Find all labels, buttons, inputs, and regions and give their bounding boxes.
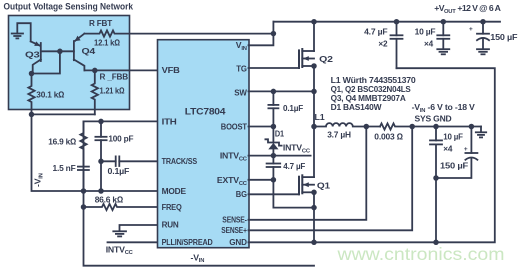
wire TG	[249, 67, 300, 69]
wire SW	[249, 90, 315, 92]
svg-text:×4: ×4	[424, 38, 433, 48]
transistor Q2 (NMOS)	[299, 49, 314, 68]
node SENSE+ tap	[409, 124, 415, 130]
ground (output 150uF)	[477, 49, 489, 54]
transistor Q3	[31, 41, 41, 73]
node Q2 drain	[311, 19, 317, 25]
svg-text:+: +	[464, 146, 468, 153]
svg-text:PLLIN/SPREAD: PLLIN/SPREAD	[162, 237, 213, 247]
svg-text:100 pF: 100 pF	[108, 133, 133, 143]
wire +VOUT top rail	[273, 21, 500, 23]
svg-text:BOOST: BOOST	[221, 122, 248, 132]
wire RUN	[120, 225, 158, 231]
svg-text:D1 BAS140W: D1 BAS140W	[331, 102, 383, 112]
ground (output 10uF)	[437, 49, 449, 54]
svg-text:www.cntronics.com: www.cntronics.com	[336, 244, 504, 264]
capacitor 0.1uF boost	[268, 91, 278, 126]
ground (inside sensing box)	[12, 23, 31, 41]
node comp rail right	[98, 188, 104, 194]
node 0.1uF tee	[98, 159, 104, 165]
sensing network region box	[9, 16, 130, 110]
wire INTVCC	[249, 155, 311, 157]
node GND input caps	[433, 240, 439, 246]
svg-text:86.6 kΩ: 86.6 kΩ	[95, 195, 124, 205]
node SW boost cap	[271, 89, 277, 95]
svg-text:D1: D1	[275, 128, 284, 138]
node Q2 source tie	[311, 63, 317, 69]
node INTVCC junction	[271, 153, 277, 159]
node RFBT junction	[271, 31, 277, 37]
capacitor 4.7uF INTVCC	[267, 156, 281, 180]
ground (SYS rail end)	[476, 127, 486, 138]
node SENSE- tap	[364, 124, 370, 130]
resistor 30.1k	[28, 74, 34, 115]
wire PLLIN/SPREAD	[108, 241, 158, 243]
svg-text:TRACK/SS: TRACK/SS	[162, 156, 198, 166]
node divider bottom	[29, 112, 35, 118]
transistor Q1 (NMOS)	[299, 175, 314, 194]
svg-text:VFB: VFB	[162, 65, 180, 75]
wire Q3 base to Q4 base	[41, 50, 74, 52]
capacitor 1.5nF	[78, 167, 89, 191]
wire EXTVCC tie to Q1 source	[273, 180, 314, 208]
svg-text:×4: ×4	[443, 144, 452, 154]
node BOOST junction	[271, 124, 277, 130]
capacitor 4.7uF x2 output	[391, 22, 403, 68]
svg-text:12.1 kΩ: 12.1 kΩ	[94, 38, 120, 48]
wire VIN to top rail	[249, 22, 274, 46]
node EXTVCC junction	[271, 177, 277, 183]
svg-text:0.003 Ω: 0.003 Ω	[374, 132, 403, 142]
svg-text:30.1 kΩ: 30.1 kΩ	[36, 89, 64, 99]
wire BG	[249, 193, 300, 195]
capacitor 0.1uF track/ss	[101, 156, 158, 166]
svg-text:L1: L1	[315, 112, 325, 122]
inductor L1 3.7uH	[314, 123, 380, 126]
op IC U1 LTC7804	[158, 40, 250, 248]
svg-text:R FBT: R FBT	[89, 18, 113, 28]
diode D1 (Schottky)	[265, 127, 281, 156]
resistor R FBT 12.1k (feedback top)	[84, 30, 273, 36]
svg-text:0.1µF: 0.1µF	[283, 103, 303, 113]
wire BOOST	[249, 126, 274, 128]
svg-text:SENSE-: SENSE-	[222, 215, 247, 225]
svg-text:Q3: Q3	[25, 50, 40, 60]
node comp rail left	[81, 188, 87, 194]
svg-text:150 µF: 150 µF	[440, 161, 468, 171]
node GND Q1	[311, 240, 317, 246]
node Q1 source tie	[311, 205, 317, 211]
svg-text:0.1µF: 0.1µF	[108, 166, 130, 176]
capacitor 10uF x4 output	[437, 22, 449, 49]
svg-text:4.7 µF: 4.7 µF	[364, 27, 387, 37]
wire FREQ drop	[84, 191, 315, 266]
svg-text:GND: GND	[229, 237, 247, 247]
svg-text:Q1: Q1	[317, 181, 330, 191]
svg-text:150 µF: 150 µF	[490, 32, 517, 42]
ground (RUN)	[113, 231, 126, 236]
wire Q2 source to SW	[313, 66, 315, 91]
capacitor 10uF x4 input	[430, 127, 442, 243]
annotation BOM block	[331, 75, 416, 112]
capacitor 150uF output (polarized)	[477, 22, 489, 49]
svg-text:LTC7804: LTC7804	[185, 106, 226, 116]
svg-text:MODE: MODE	[162, 186, 187, 196]
svg-text:ITH: ITH	[162, 116, 177, 126]
node Q1 source	[311, 190, 317, 196]
node ITH branch	[98, 119, 104, 125]
svg-text:FREQ: FREQ	[162, 202, 182, 212]
svg-text:SW: SW	[234, 88, 247, 98]
svg-text:10 µF: 10 µF	[443, 132, 463, 142]
node input cap 150uF top	[469, 124, 475, 130]
node output 10uF top	[441, 19, 447, 25]
svg-text:TG: TG	[236, 63, 247, 73]
resistor R_FBB 1.21k	[92, 70, 98, 114]
resistor 86.6k	[84, 204, 158, 210]
wire SENSE+	[249, 127, 413, 231]
wire ITH top	[84, 121, 158, 191]
node Q3 collector junction	[29, 71, 35, 77]
svg-text:R _FBB: R _FBB	[100, 72, 129, 82]
svg-text:4.7 µF: 4.7 µF	[283, 161, 305, 171]
node input caps bottom	[433, 175, 439, 181]
wire Q1 source down	[313, 192, 315, 242]
wire SW down to Q1 drain	[313, 91, 315, 177]
wire EXTVCC	[249, 179, 274, 181]
svg-text:SENSE+: SENSE+	[221, 225, 247, 235]
resistor 16.9k	[80, 121, 86, 166]
svg-text:Q2: Q2	[319, 54, 333, 64]
svg-text:1.21 kΩ: 1.21 kΩ	[100, 86, 125, 96]
svg-text:+: +	[469, 26, 473, 33]
node output 150uF top	[480, 19, 486, 25]
svg-text:×2: ×2	[378, 38, 387, 48]
svg-text:16.9 kΩ: 16.9 kΩ	[48, 136, 76, 146]
wire base-collector tie of Q3	[32, 51, 60, 73]
capacitor 150uF input (polarized)	[436, 127, 477, 179]
capacitor 100pF	[95, 121, 106, 191]
wire SENSE-	[249, 127, 367, 220]
node output 4.7uF top	[394, 19, 400, 25]
transistor Q4	[74, 34, 85, 71]
svg-text:10 µF: 10 µF	[415, 27, 436, 37]
node FREQ tee	[81, 204, 87, 210]
svg-text:RUN: RUN	[162, 219, 179, 229]
wire -VIN left rail	[32, 114, 158, 191]
wire R_FBB bottom to left rail	[32, 113, 95, 115]
node R_FBB top	[92, 68, 98, 74]
wire GND	[249, 68, 495, 242]
svg-text:BG: BG	[236, 189, 247, 199]
node SW vertical	[311, 89, 317, 95]
node input cap 10uF top	[433, 124, 439, 130]
svg-text:Output Voltage Sensing Network: Output Voltage Sensing Network	[4, 2, 134, 12]
wire Q2 drain to rail	[313, 22, 315, 51]
wire VFB: Q4 collector to IC	[84, 69, 157, 71]
resistor 0.003 Ohm sense	[380, 123, 481, 129]
node L1 tap	[311, 124, 317, 130]
svg-text:3.7 µH: 3.7 µH	[327, 130, 351, 140]
svg-text:1.5 nF: 1.5 nF	[53, 163, 76, 173]
svg-text:SYS GND: SYS GND	[415, 113, 452, 123]
node base junction	[57, 49, 63, 55]
